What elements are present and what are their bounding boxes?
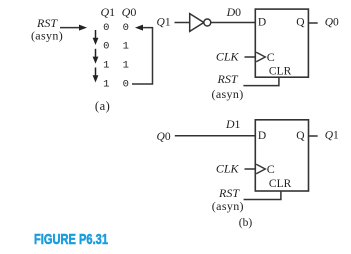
- wire RST arrow into state sequence: [60, 25, 87, 31]
- wire RST into CLR of U3: [244, 191, 281, 200]
- svg-text:Q0: Q0: [157, 131, 171, 143]
- inverter U1: [190, 14, 211, 32]
- svg-text:CLK: CLK: [216, 162, 240, 176]
- svg-text:(a): (a): [95, 99, 110, 113]
- svg-text:D: D: [258, 17, 266, 29]
- wire CLK into U3: [245, 168, 256, 170]
- svg-text:Q1: Q1: [100, 5, 115, 19]
- state row 00: [103, 22, 129, 34]
- wire CLK into U2: [245, 56, 256, 58]
- svg-text:D0: D0: [226, 5, 242, 19]
- flip-flop U2 (top D flip-flop): [255, 9, 308, 77]
- wire feedback loop 10 back to 00: [132, 25, 153, 84]
- svg-text:C: C: [267, 162, 275, 176]
- transition arrow 11 to 10: [93, 68, 99, 83]
- svg-text:1: 1: [103, 78, 109, 90]
- svg-text:0: 0: [103, 22, 109, 34]
- svg-text:(asyn): (asyn): [212, 199, 244, 213]
- svg-text:(asyn): (asyn): [212, 87, 244, 101]
- svg-text:1: 1: [123, 60, 129, 72]
- svg-text:RST: RST: [216, 72, 238, 86]
- wire D0: inverter output to U2.D: [211, 22, 256, 24]
- wire Q0 to U3.D: [175, 135, 256, 137]
- svg-text:0: 0: [123, 78, 129, 90]
- svg-text:CLR: CLR: [269, 178, 292, 190]
- svg-text:(asyn): (asyn): [31, 28, 63, 42]
- wire Q0 output of U2: [308, 22, 317, 24]
- svg-text:Q: Q: [296, 17, 305, 29]
- transition arrow 00 to 01: [93, 30, 99, 45]
- state row 01: [103, 41, 129, 53]
- svg-text:D1: D1: [225, 117, 241, 131]
- svg-text:D: D: [258, 130, 266, 142]
- svg-text:CLR: CLR: [269, 66, 292, 78]
- wire Q1 to inverter: [175, 22, 191, 24]
- svg-text:Q1: Q1: [325, 130, 339, 142]
- svg-text:Q0: Q0: [122, 5, 137, 19]
- wire RST into CLR of U2: [243, 77, 279, 85]
- transition arrow 01 to 11: [93, 49, 99, 64]
- svg-text:0: 0: [123, 22, 129, 34]
- svg-text:1: 1: [123, 41, 129, 53]
- state row 11: [103, 60, 129, 72]
- svg-text:Q0: Q0: [325, 17, 339, 29]
- flip-flop U3 (bottom D flip-flop): [255, 120, 308, 191]
- svg-text:(b): (b): [239, 217, 253, 229]
- clock triangle of U2: [256, 52, 265, 61]
- clock triangle of U3: [256, 164, 265, 173]
- wire Q1 output of U3: [309, 135, 318, 137]
- state row 10: [103, 78, 129, 90]
- svg-text:FIGURE P6.31: FIGURE P6.31: [34, 232, 108, 248]
- svg-text:0: 0: [103, 41, 109, 53]
- svg-text:Q1: Q1: [157, 17, 171, 29]
- svg-text:Q: Q: [296, 130, 305, 142]
- svg-text:1: 1: [103, 60, 109, 72]
- svg-text:CLK: CLK: [216, 50, 240, 64]
- svg-text:C: C: [267, 50, 275, 64]
- label RST (asyn) input of state diagram: [31, 16, 63, 42]
